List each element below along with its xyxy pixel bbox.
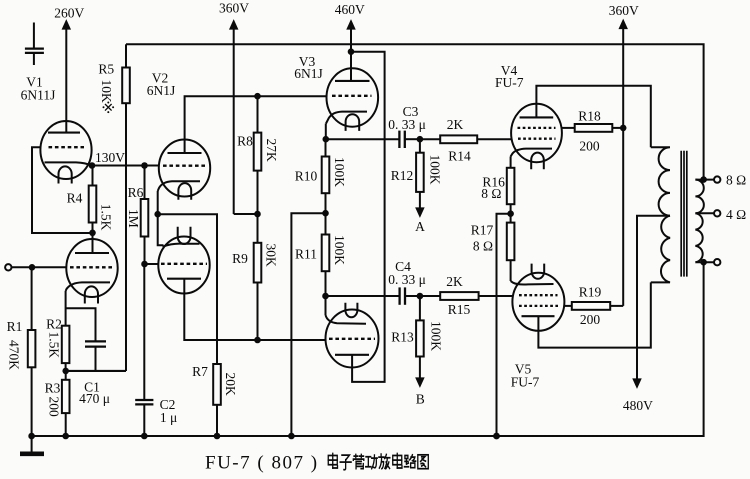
junction 130V / R6 — [141, 162, 148, 169]
svg-text:R11: R11 — [295, 247, 317, 262]
terminal secondary common — [714, 259, 720, 265]
resistor R15 (2K grid stopper) — [420, 292, 513, 300]
capacitor grid-cap (floating, top left) — [25, 23, 44, 66]
svg-text:8 Ω: 8 Ω — [481, 186, 501, 201]
transformer T1 primary lower winding — [651, 216, 670, 283]
svg-text:R1: R1 — [7, 319, 23, 334]
svg-text:R3: R3 — [45, 381, 61, 396]
junction R8 top / V3 grid wire — [254, 93, 261, 100]
svg-text:R18: R18 — [578, 108, 601, 123]
svg-text:R4: R4 — [67, 190, 83, 205]
svg-text:8 Ω: 8 Ω — [473, 238, 493, 253]
wire: V1b cathode lead — [65, 291, 67, 326]
node: 460V supply arrow — [348, 22, 354, 52]
node: 130V cathode wire (V1a cathode to V2a grid) — [91, 165, 159, 167]
svg-text:470 μ: 470 μ — [79, 391, 110, 406]
resistor R5 — [66, 44, 130, 371]
wire: 460V to V3b plate (right detour) — [351, 52, 385, 382]
svg-text:8 Ω: 8 Ω — [726, 172, 746, 187]
transformer T1 core — [681, 151, 687, 277]
node B arrow — [417, 378, 423, 385]
node A arrow — [417, 208, 423, 215]
wire: bottom ground bus — [32, 262, 704, 436]
node: 360V supply arrow (right) — [620, 21, 626, 306]
svg-text:2K: 2K — [446, 274, 463, 289]
tube V2a (upper triode of V2 6N1J) — [158, 140, 211, 200]
junction R2/R3/C1/R5 — [62, 368, 69, 375]
resistor R3 — [62, 371, 70, 436]
resistor R18 (screen 200) — [562, 124, 624, 132]
resistor R14 (2K grid stopper) — [420, 135, 512, 143]
capacitor C3 — [399, 131, 420, 148]
junction R8 / R9 / 360V — [254, 211, 261, 218]
svg-text:200: 200 — [580, 312, 601, 327]
junction ground bus dots — [28, 433, 35, 440]
wire: R10/R11 node left and down to ground bus — [291, 213, 325, 436]
svg-text:2K: 2K — [447, 117, 464, 132]
resistor R10 — [322, 139, 330, 213]
svg-text:R13: R13 — [391, 329, 414, 344]
wire: V2a cathode down to junction — [157, 191, 159, 214]
wire: secondary top tap — [695, 179, 714, 181]
resistor R13 — [416, 296, 424, 382]
node: 360V supply arrow (left) — [231, 22, 258, 215]
junction C4 / R13 / R15 — [417, 293, 424, 300]
svg-text:R15: R15 — [448, 302, 471, 317]
resistor R7 — [213, 364, 221, 436]
svg-text:R6: R6 — [128, 185, 144, 200]
junction R11 / V3b cathode / C4 — [322, 293, 329, 300]
resistor R6 — [141, 166, 149, 265]
svg-text:480V: 480V — [623, 398, 653, 413]
svg-text:200: 200 — [47, 397, 62, 418]
junction secondary bottom / ground return — [700, 259, 707, 266]
junction V1a cathode / R4 — [89, 162, 96, 169]
wire: cathode node to C4 — [326, 295, 400, 297]
symbol ※ (R5 note mark) — [103, 102, 115, 114]
junction R10 / R11 — [322, 210, 329, 217]
wire: R6 to V2b grid — [145, 263, 159, 265]
wire: cathode junction right and down to R7 — [158, 214, 217, 364]
svg-text:R12: R12 — [391, 168, 414, 183]
svg-text:6N1J: 6N1J — [147, 83, 176, 98]
svg-text:R7: R7 — [192, 364, 208, 379]
caption glyph 路 — [404, 455, 415, 468]
junction V3 cathode / R10 / C3 — [323, 136, 330, 143]
caption glyph 子 — [340, 455, 351, 470]
svg-text:1M: 1M — [126, 209, 141, 228]
capacitor C1 — [66, 341, 126, 371]
terminal: input jack — [5, 264, 11, 270]
junction C3 / R12 / R14 — [417, 136, 424, 143]
transformer T1 primary upper winding — [651, 147, 670, 215]
tube V2b (lower triode of V2, flipped) — [158, 227, 209, 294]
svg-text:1.5K: 1.5K — [47, 332, 62, 359]
svg-text:260V: 260V — [54, 6, 84, 21]
svg-text:0. 33 μ: 0. 33 μ — [388, 272, 426, 287]
svg-text:460V: 460V — [335, 2, 365, 17]
junction 460V / V3 plate / V3b plate — [348, 48, 355, 55]
terminal 8Ω tap — [714, 176, 720, 182]
wire: secondary 4Ω tap — [695, 212, 714, 214]
svg-text:470K: 470K — [7, 340, 22, 370]
svg-text:R2: R2 — [46, 317, 62, 332]
wire: top B+ feedback bus — [126, 44, 704, 179]
svg-text:200: 200 — [579, 138, 600, 153]
resistor R2 — [62, 326, 70, 371]
svg-text:B: B — [416, 391, 425, 406]
caption glyph 管 — [353, 454, 364, 468]
tube V1b (lower triode of V1, grid from input) — [66, 233, 118, 304]
svg-text:100K: 100K — [332, 157, 347, 187]
svg-text:30K: 30K — [264, 244, 279, 268]
tube V4 (FU-7 output beam tetrode) — [511, 104, 562, 170]
svg-text:0. 33 μ: 0. 33 μ — [388, 117, 426, 132]
junction R4 bottom / V1b plate — [89, 230, 96, 237]
resistor R9 — [254, 214, 262, 340]
tube V3b (6N1J lower driver, flipped) — [326, 296, 379, 368]
svg-text:130V: 130V — [95, 150, 125, 165]
resistor R19 (screen 200) — [564, 302, 623, 310]
capacitor C4 — [400, 287, 420, 304]
wire: cathode node to ground bus — [497, 214, 511, 436]
caption glyph 图 — [418, 455, 429, 469]
wire: primary center tap to 480V — [637, 216, 670, 383]
junction V2a cathode — [154, 211, 161, 218]
wire: cathode to C1 top — [66, 308, 96, 341]
svg-text:R14: R14 — [448, 148, 471, 163]
terminal 4Ω tap — [714, 210, 720, 216]
tube V5 (FU-7 output beam tetrode, flipped) — [511, 264, 565, 331]
junction R6 / V2b grid / C2 — [141, 261, 148, 268]
resistor R16 (cathode 8Ω) — [507, 157, 515, 214]
capacitor C2 — [135, 264, 153, 436]
svg-text:6N1J: 6N1J — [294, 66, 323, 81]
svg-text:R5: R5 — [98, 62, 114, 77]
node: 480V supply arrow (down) — [634, 379, 640, 386]
resistor R12 — [416, 139, 424, 212]
wire: V2a plate up and right to V3 grid — [185, 96, 327, 153]
caption glyph 电 — [328, 454, 337, 469]
svg-text:R19: R19 — [579, 284, 602, 299]
svg-text:R9: R9 — [232, 251, 248, 266]
svg-text:FU-7: FU-7 — [495, 75, 524, 90]
caption glyph 电 (2) — [393, 454, 402, 469]
junction R16 / R17 / ground return — [507, 210, 514, 217]
svg-text:360V: 360V — [609, 3, 639, 18]
svg-text:R8: R8 — [237, 134, 253, 149]
junction input / R1 / grid — [29, 264, 36, 271]
caption glyph 功 — [366, 455, 378, 469]
svg-text:FU-7 ( 807 ): FU-7 ( 807 ) — [205, 452, 319, 473]
transformer T1 secondary winding — [695, 180, 703, 263]
junction R18 / 360V line — [620, 125, 627, 132]
resistor R17 (cathode 8Ω) — [507, 214, 515, 281]
svg-text:20K: 20K — [223, 373, 238, 397]
resistor R4 — [89, 166, 97, 233]
svg-text:100K: 100K — [332, 235, 347, 265]
svg-text:360V: 360V — [219, 1, 249, 16]
svg-text:4 Ω: 4 Ω — [726, 207, 746, 222]
svg-text:R17: R17 — [471, 222, 494, 237]
node: 260V supply arrow — [63, 22, 69, 133]
svg-text:10K: 10K — [99, 80, 114, 104]
resistor R11 — [322, 213, 330, 296]
wire: V4 plate to output transformer primary top — [536, 86, 650, 148]
svg-text:A: A — [415, 219, 425, 234]
svg-text:1 μ: 1 μ — [160, 410, 177, 425]
junction secondary top / feedback — [700, 176, 707, 183]
resistor R1 — [28, 267, 36, 436]
wire: cathode node to C3 — [326, 138, 399, 140]
wire: input to V1b grid — [12, 266, 67, 268]
svg-text:1.5K: 1.5K — [99, 204, 114, 231]
svg-text:100K: 100K — [429, 321, 444, 351]
wire: cathode junction down to V2b cathode — [158, 214, 164, 245]
junction R9 bottom / V3b grid wire — [254, 337, 261, 344]
wire: V1a grid return (grid to left, down, to R4 bottom) — [32, 147, 93, 233]
resistor R8 — [254, 96, 262, 214]
svg-text:27K: 27K — [264, 139, 279, 163]
svg-text:R10: R10 — [295, 169, 318, 184]
wire: secondary bottom tap — [695, 261, 714, 263]
svg-text:FU-7: FU-7 — [511, 374, 540, 389]
ground — [20, 436, 44, 454]
svg-text:100K: 100K — [428, 155, 443, 185]
tube V1a (upper triode of V1 6N11J) — [40, 121, 91, 184]
caption glyph 放 — [379, 454, 390, 469]
wire: V2b plate down and right to V3b grid — [184, 279, 325, 340]
wire: V3 cathode lead down — [325, 124, 327, 140]
wire: V5 plate to output transformer primary bottom — [538, 282, 650, 347]
svg-text:6N11J: 6N11J — [21, 88, 56, 103]
tube V3 (6N1J driver, plate up) — [326, 52, 378, 131]
